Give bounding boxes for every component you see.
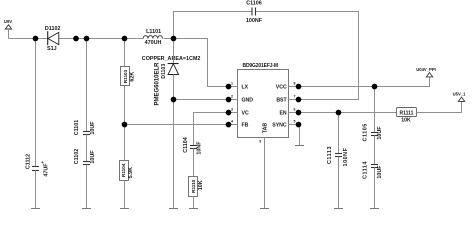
svg-text:C1106: C1106 — [246, 1, 262, 7]
wire: main output rail — [9, 38, 144, 40]
node: VCC/C1105 junction — [372, 84, 378, 90]
svg-text:C1102: C1102 — [74, 149, 80, 165]
ground (C1102) — [82, 208, 91, 210]
svg-text:C1105: C1105 — [363, 123, 369, 141]
resistor R1103 — [121, 39, 136, 161]
svg-text:C1112: C1112 — [26, 154, 32, 169]
node: GND/diode junction — [171, 97, 177, 103]
svg-text:100NF: 100NF — [343, 147, 349, 166]
IC U1101 BD9G201EFJ-M — [226, 63, 302, 209]
wire: GND pin to diode — [174, 99, 239, 101]
svg-text:10UF: 10UF — [377, 165, 383, 179]
inductor L1101 — [143, 29, 162, 46]
svg-text:L1101: L1101 — [146, 29, 161, 35]
svg-text:D1102: D1102 — [45, 26, 61, 32]
svg-text:C1113: C1113 — [327, 146, 333, 164]
svg-text:PMEG6010ELR: PMEG6010ELR — [155, 62, 161, 106]
ground (TAB) — [260, 208, 269, 210]
svg-text:C1101: C1101 — [74, 120, 80, 136]
svg-text:BST: BST — [276, 98, 287, 104]
node: EN/C1113 junction — [336, 110, 342, 116]
capacitor C1105 — [363, 87, 384, 142]
pin 1 LX — [229, 86, 238, 88]
svg-text:C1104: C1104 — [183, 137, 189, 153]
pin 2 GND — [229, 99, 238, 101]
svg-text:62K: 62K — [129, 72, 135, 82]
node: FB divider node — [122, 122, 128, 128]
svg-text:TAB: TAB — [262, 123, 268, 134]
svg-text:R1103: R1103 — [123, 69, 128, 83]
svg-text:10K: 10K — [401, 117, 411, 123]
pin 7 BST — [289, 99, 299, 101]
svg-text:EN: EN — [279, 111, 286, 117]
svg-text:470UH: 470UH — [145, 40, 162, 46]
capacitor C1113 — [327, 113, 349, 209]
junction dots top layer — [33, 36, 378, 128]
resistor R1104 — [120, 161, 134, 209]
svg-text:100NF: 100NF — [246, 18, 263, 24]
wire: rail from inductor to LX pin corner — [164, 39, 239, 87]
ground (R1104) — [120, 208, 129, 210]
svg-text:R1104: R1104 — [121, 163, 126, 177]
capacitor C1106 — [246, 1, 263, 24]
capacitor C1104 — [183, 137, 202, 176]
svg-text:D1103: D1103 — [161, 64, 167, 79]
diode D1103 PMEG6010ELR — [155, 39, 179, 209]
svg-text:8: 8 — [294, 82, 296, 86]
wire: EN net — [299, 112, 397, 114]
svg-text:5: 5 — [294, 120, 296, 124]
capacitor C1102 — [74, 135, 96, 209]
power symbol U5V_1 — [453, 92, 466, 102]
svg-text:R1110: R1110 — [191, 179, 196, 192]
node: LX junction at inductor right — [171, 36, 177, 42]
svg-text:R1111: R1111 — [400, 111, 414, 117]
node: rail junction x=35.5 — [33, 36, 39, 42]
svg-text:U04V_PPI: U04V_PPI — [416, 67, 436, 72]
node: rail junction x=86.5 — [84, 36, 90, 42]
ground (D1103) — [169, 208, 178, 210]
svg-text:U9V: U9V — [4, 19, 12, 24]
svg-text:10UF: 10UF — [377, 126, 383, 140]
svg-text:FB: FB — [242, 123, 249, 129]
wire: bootstrap link LX to C1106 to BST — [174, 12, 253, 39]
power symbol U9V — [4, 19, 12, 39]
svg-text:5.9K: 5.9K — [128, 167, 134, 178]
svg-text:GND: GND — [242, 98, 254, 104]
diode D1102 — [45, 26, 61, 52]
pin 8 VCC — [289, 86, 299, 88]
svg-text:10NF: 10NF — [197, 141, 203, 155]
ground (C1113) — [334, 208, 343, 210]
ground (R1110) — [189, 208, 198, 210]
capacitor C1112 (electrolytic 47UF) — [26, 39, 50, 209]
svg-text:3: 3 — [231, 108, 233, 112]
svg-text:2: 2 — [231, 95, 233, 99]
pin 3 VC — [229, 112, 238, 114]
node: rail junction x=124.5 — [122, 36, 128, 42]
svg-text:10UF: 10UF — [90, 121, 96, 135]
ground (C1114) — [370, 208, 379, 210]
svg-text:C1114: C1114 — [363, 161, 369, 179]
node: rail junction x=76 — [73, 36, 79, 42]
power symbol U04V_PPI — [416, 67, 436, 77]
svg-text:1: 1 — [231, 82, 233, 86]
svg-text:7: 7 — [294, 95, 296, 99]
resistor R1111 — [397, 108, 417, 124]
wire: FB pin to divider node — [125, 124, 239, 126]
svg-text:VCC: VCC — [276, 85, 287, 91]
svg-text:47UF: 47UF — [44, 163, 50, 177]
ground (SYNC) — [295, 145, 304, 147]
svg-text:6: 6 — [294, 108, 296, 112]
pin 5 SYNC — [289, 124, 299, 126]
svg-text:4: 4 — [231, 120, 233, 124]
capacitor C1114 — [363, 136, 384, 209]
wire: VCC rail to U04V_PPI — [299, 77, 430, 87]
resistor R1110 — [189, 177, 205, 209]
svg-text:BD9G201EFJ-M: BD9G201EFJ-M — [243, 63, 278, 69]
pin 4 FB — [229, 124, 238, 126]
svg-text:S1J: S1J — [47, 46, 57, 52]
svg-text:10UF: 10UF — [90, 150, 96, 164]
svg-text:9: 9 — [259, 140, 261, 144]
svg-text:U5V_1: U5V_1 — [453, 92, 466, 97]
ground (C1112) — [31, 208, 40, 210]
svg-text:SYNC: SYNC — [272, 123, 287, 129]
pin 6 EN — [289, 112, 299, 114]
capacitor C1101 — [74, 39, 96, 136]
svg-text:VC: VC — [242, 111, 249, 117]
svg-text:10K: 10K — [198, 180, 204, 190]
wire: R1111 to U5V_1 — [417, 101, 462, 112]
svg-text:LX: LX — [242, 85, 249, 91]
wire: SYNC to ground — [299, 125, 301, 146]
svg-text:COPPER_AREA=1CM2: COPPER_AREA=1CM2 — [142, 56, 201, 62]
wire: VC pin to compensation network — [194, 113, 239, 146]
